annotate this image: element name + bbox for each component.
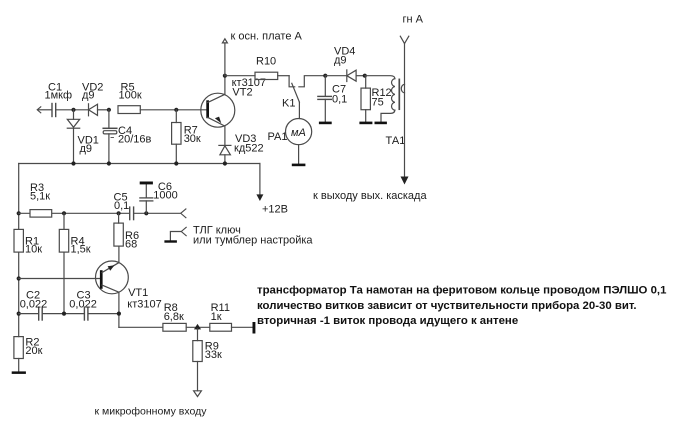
svg-text:20/16в: 20/16в — [118, 133, 152, 145]
telegraph key symbol — [164, 225, 313, 247]
resistor R11 — [210, 302, 253, 331]
svg-text:к выходу вых. каскада: к выходу вых. каскада — [313, 190, 427, 202]
wire C1 to VD2 — [56, 109, 88, 111]
svg-text:трансформатор Та намотан на фе: трансформатор Та намотан на феритовом ко… — [257, 285, 667, 297]
node R4 bottom — [62, 312, 66, 316]
svg-text:вторичная -1 виток провода ид: вторичная -1 виток провода идущего к ант… — [257, 315, 518, 327]
capacitor C7 — [318, 76, 347, 122]
node R6 top — [117, 211, 121, 215]
resistor R8 — [163, 302, 186, 331]
svg-text:1мкф: 1мкф — [45, 90, 73, 102]
ground under R2 — [12, 371, 26, 374]
R9 down arrow terminal — [194, 391, 202, 397]
resistor R3 — [30, 182, 52, 217]
meter PA1 — [268, 119, 312, 164]
transformer TA1 core — [398, 79, 400, 109]
+12V supply arrow — [256, 164, 288, 216]
junction R8/R9/R11 (arrow dot) — [194, 324, 201, 330]
capacitor C3 — [69, 290, 97, 321]
node R5/R7 — [174, 108, 178, 112]
left vertical bias line — [18, 164, 20, 230]
ground under PA1 — [292, 164, 306, 167]
node rail/C4 — [107, 161, 111, 165]
svg-text:1к: 1к — [211, 311, 222, 323]
svg-text:0,1: 0,1 — [332, 94, 347, 106]
transistor VT2 (кт3107) — [201, 76, 266, 146]
svg-text:K1: K1 — [282, 98, 295, 110]
node C2 left — [17, 312, 21, 316]
TLG wire end arrow terminal — [181, 209, 186, 218]
resistor R9 — [193, 329, 222, 391]
node R3/R4 — [62, 211, 66, 215]
svg-text:10к: 10к — [25, 244, 42, 256]
svg-text:1000: 1000 — [153, 190, 177, 202]
svg-text:д9: д9 — [80, 143, 93, 155]
svg-text:количество витков зависит от ч: количество витков зависит от чуствительн… — [257, 300, 637, 312]
svg-text:VT1: VT1 — [128, 287, 148, 299]
svg-text:PA1: PA1 — [268, 131, 288, 143]
node VT1 collector — [117, 312, 121, 316]
capacitor C1 — [45, 82, 73, 117]
resistor R2 — [14, 337, 43, 372]
svg-text:75: 75 — [372, 97, 384, 109]
resistor R5 — [118, 82, 142, 114]
resistor R12 — [361, 76, 392, 122]
svg-text:33к: 33к — [205, 349, 222, 361]
resistor R1 — [14, 229, 42, 255]
svg-text:1,5к: 1,5к — [71, 244, 91, 256]
wire C2 to C3 — [43, 313, 84, 315]
resistor R4 — [59, 213, 90, 313]
node C6 — [144, 211, 148, 215]
svg-text:к осн. плате А: к осн. плате А — [231, 31, 303, 43]
diode VD1 — [67, 110, 99, 164]
wire R8 to R11 — [186, 326, 210, 328]
svg-text:0,1: 0,1 — [114, 200, 129, 212]
diode VD2 — [82, 82, 109, 116]
input terminal (to microphone line, left arrow) — [37, 107, 41, 113]
svg-text:ТА1: ТА1 — [386, 135, 406, 147]
terminal bar after R11 — [253, 322, 256, 334]
svg-text:68: 68 — [125, 239, 137, 251]
terminal to main board A — [222, 31, 302, 76]
wire R5 to VT2 base — [140, 109, 206, 111]
capacitor C2 — [19, 290, 48, 321]
svg-text:кт3107: кт3107 — [127, 299, 161, 311]
relay contact K1 — [282, 76, 325, 119]
svg-text:6,8к: 6,8к — [164, 311, 184, 323]
svg-text:5,1к: 5,1к — [30, 191, 50, 203]
capacitor C5 — [114, 192, 134, 220]
resistor R6 — [114, 213, 139, 262]
node rail/R7 — [174, 161, 178, 165]
+12V rail wire — [19, 163, 260, 165]
svg-text:кд522: кд522 — [234, 143, 264, 155]
wire R3 row — [19, 212, 130, 214]
transformer TA1 secondary (1 turn on antenna wire) — [401, 84, 404, 92]
svg-text:д9: д9 — [334, 55, 347, 67]
transformer TA1 primary winding — [365, 76, 395, 122]
node rail/VD1 — [71, 161, 75, 165]
wire C5 to TLG terminal — [134, 212, 181, 214]
antenna jack terminal (гн А) — [400, 14, 423, 44]
svg-text:0,022: 0,022 — [69, 299, 97, 311]
node base wire — [17, 276, 21, 280]
svg-text:мА: мА — [291, 127, 306, 139]
antenna wire — [404, 44, 406, 177]
wire VT1 collector to R8 — [119, 326, 163, 328]
transistor VT1 (кт3107) — [96, 261, 162, 327]
ground under TA1 primary — [375, 122, 387, 125]
node rail/VD3 — [223, 161, 227, 165]
svg-text:100к: 100к — [119, 90, 142, 102]
node R3/left line — [17, 211, 21, 215]
output stage arrow terminal — [313, 177, 427, 203]
svg-text:или тумблер настройка: или тумблер настройка — [193, 234, 313, 246]
capacitor C4 (electrolytic) — [103, 110, 151, 164]
ground under R12 — [359, 122, 372, 125]
resistor R10 — [225, 56, 289, 80]
resistor R7 — [172, 110, 201, 164]
svg-text:0,022: 0,022 — [20, 299, 48, 311]
wire input to C1 — [38, 109, 52, 111]
VT1 base wire — [19, 278, 100, 280]
diode VD4 — [325, 46, 365, 82]
capacitor C6 (1000) — [140, 181, 178, 213]
svg-text:VT2: VT2 — [232, 87, 252, 99]
svg-text:20к: 20к — [25, 345, 42, 357]
ground under C7 — [319, 122, 332, 125]
diode VD3 — [219, 133, 264, 164]
node VD4/R12 — [363, 74, 367, 78]
left line R1 to R2 — [18, 252, 20, 337]
node VT2 collector / R10 — [223, 74, 227, 78]
svg-text:30к: 30к — [184, 133, 201, 145]
node R10/C7 — [323, 74, 327, 78]
wire C3 to VT1 collector — [88, 313, 119, 315]
svg-text:гн А: гн А — [403, 14, 424, 26]
node VD2/C4/R5 — [107, 108, 111, 112]
svg-text:R10: R10 — [256, 56, 276, 68]
svg-text:+12В: +12В — [262, 204, 288, 216]
svg-text:к микрофонному входу: к микрофонному входу — [95, 406, 208, 418]
node C1/VD1/VD2 — [71, 108, 75, 112]
svg-text:д9: д9 — [82, 90, 95, 102]
